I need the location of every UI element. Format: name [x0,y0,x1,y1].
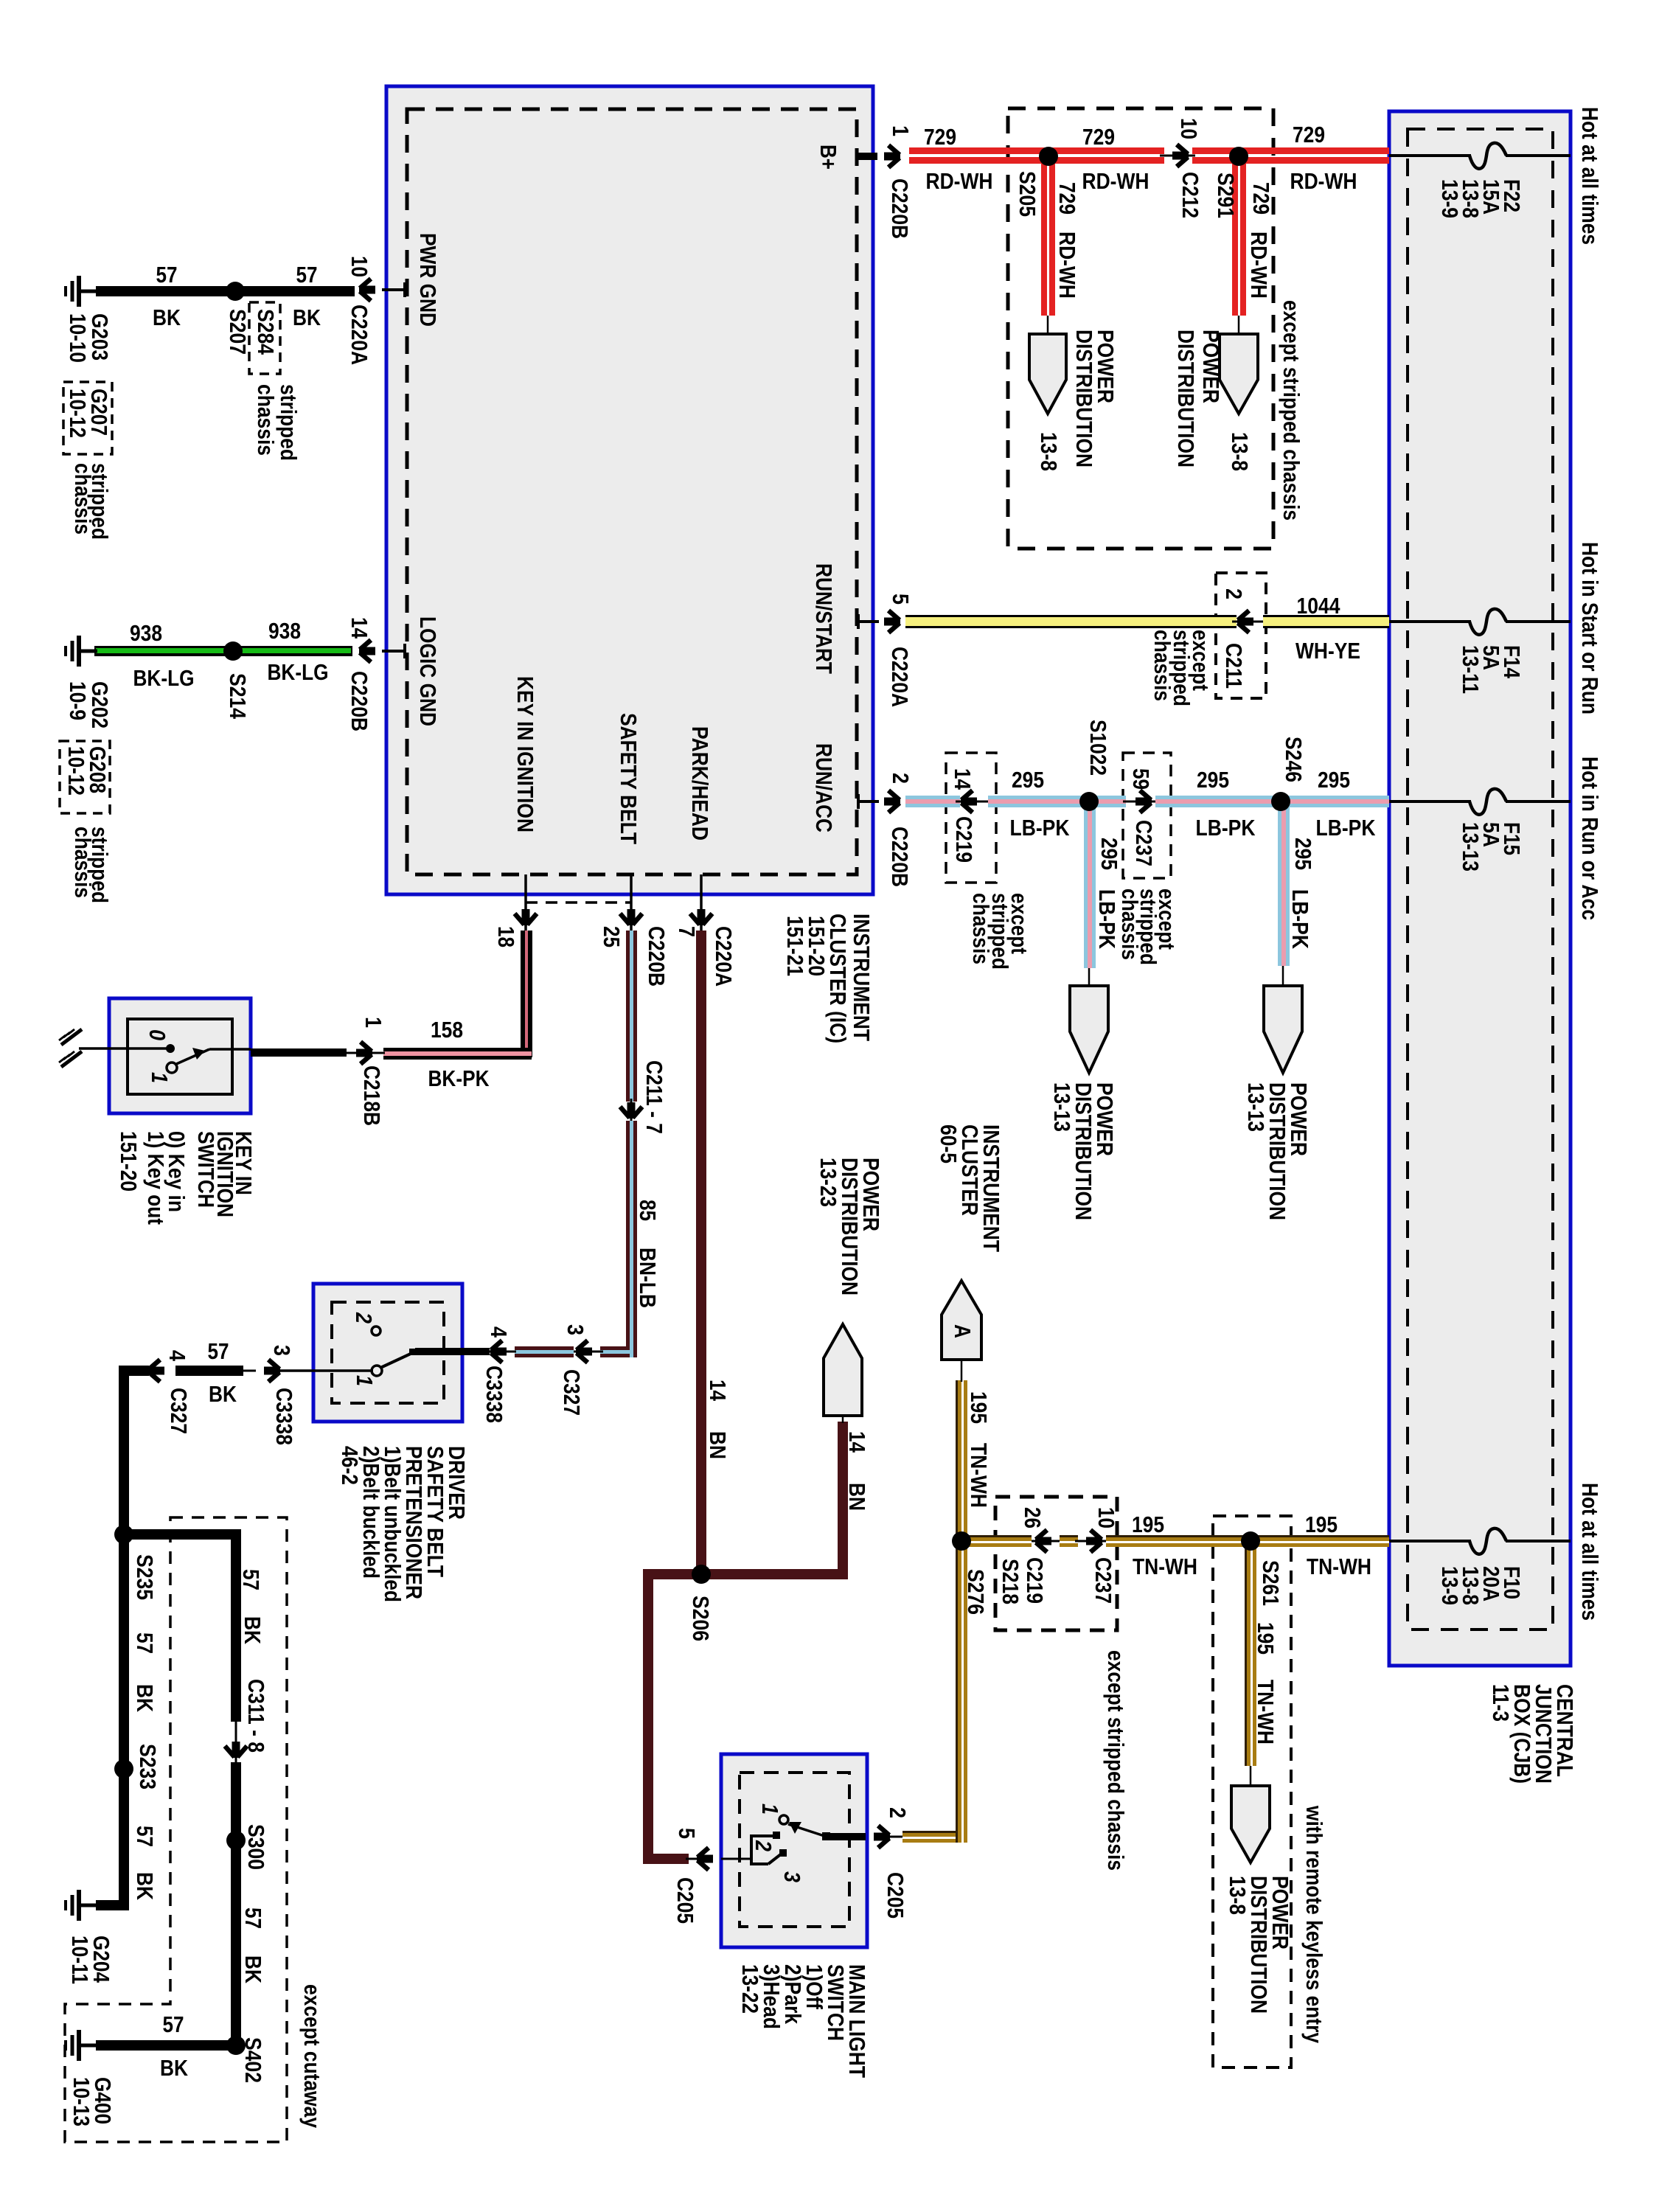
main light switch pin 5 inner line [721,1858,753,1860]
ground G203 [66,276,97,307]
C311-8 link line [235,1722,237,1764]
svg-text:0: 0 [145,1029,170,1040]
wire 195 TN-WH S261 pigtail [1245,1541,1256,1787]
svg-text:14: 14 [950,768,975,790]
svg-text:13-8: 13-8 [1225,1876,1251,1915]
connector arrow C211 pin 7 [620,1102,642,1119]
wire 1044 WH-YE C211 to CJB [1263,615,1389,628]
label KEY IN IGNITION SWITCH [116,1131,257,1225]
connector arrow C327 pin 3 [576,1340,592,1363]
svg-text:chassis: chassis [1117,888,1143,960]
C3338 pin 4 link line [487,1351,516,1353]
wire thin pretensioner pin 3 entry [279,1369,373,1372]
svg-text:57: 57 [163,2011,184,2037]
svg-text:BK: BK [240,1616,265,1645]
svg-text:C218B: C218B [359,1065,385,1126]
svg-text:60-5: 60-5 [936,1124,961,1164]
svg-text:PARK/HEAD: PARK/HEAD [687,726,713,841]
svg-text:S205: S205 [1015,171,1040,217]
svg-text:46-2: 46-2 [337,1446,363,1485]
ground G204 [66,1890,97,1921]
svg-text:POWER: POWER [1198,330,1224,403]
instrument cluster A arrow [942,1281,981,1360]
svg-text:BK: BK [209,1381,237,1407]
svg-text:C220A: C220A [347,305,372,365]
svg-text:151-20: 151-20 [116,1131,142,1192]
PWR GND pin stub [382,282,405,297]
wire 938 BK-LG ground to S214 to C220B pin 14 [94,646,352,656]
svg-text:Hot at all times: Hot at all times [1577,1483,1603,1621]
connector arrow C219 pin 14 [961,790,977,813]
svg-text:chassis: chassis [1150,630,1175,701]
svg-text:chassis: chassis [70,463,96,535]
connector arrow C205 pin 2 [874,1826,890,1848]
label stripped chassis [70,463,113,540]
svg-text:TN-WH: TN-WH [1307,1554,1371,1579]
splice S261 [1241,1531,1260,1551]
label 295 vertical [1094,838,1122,950]
wire 195 TN-WH vertical S276 to switch [956,1541,967,1843]
svg-text:S261: S261 [1258,1560,1284,1606]
pin 25 stub line [630,874,633,931]
svg-text:5: 5 [888,594,914,605]
svg-text:BN-LB: BN-LB [635,1248,661,1308]
label pin 10 C237 [1091,1507,1119,1604]
svg-text:13-13: 13-13 [1243,1082,1269,1132]
svg-text:KEY IN IGNITION: KEY IN IGNITION [512,676,538,832]
splice S291 [1229,147,1248,166]
label CENTRAL JUNCTION BOX (CJB) 11-3 [1488,1684,1578,1784]
connector arrow C220A pin 10 [359,279,375,301]
wire 85 BN-LB corner horizontal [600,1346,630,1357]
svg-text:BK: BK [240,1955,266,1984]
label pin 3 C327 [559,1324,588,1416]
wire 729 RD-WH B+ to S205 to C212 [909,147,1164,164]
svg-text:BK-LG: BK-LG [268,659,329,685]
svg-text:2: 2 [888,773,914,784]
svg-text:C211: C211 [1221,643,1247,689]
svg-text:729: 729 [1054,182,1080,215]
LOGIC GND pin stub [382,644,405,658]
svg-text:57: 57 [132,1632,158,1654]
svg-text:14: 14 [844,1431,870,1453]
label F10 20A 13-8 13-9 [1437,1566,1525,1605]
connector arrow C3338 pin 4 [490,1340,507,1363]
pretensioner inner dashed border [332,1302,444,1403]
C3338 pin 3 link line [242,1370,256,1372]
svg-text:S402: S402 [240,2037,266,2083]
svg-text:14: 14 [347,617,372,639]
wire 57 BK S235 branch horizontal [119,1529,241,1540]
power distribution arrow at S261 [1231,1786,1270,1863]
svg-text:C237: C237 [1131,820,1157,866]
dashed box around G207 [63,382,112,454]
svg-text:LB-PK: LB-PK [1094,889,1120,950]
splice S235 [114,1525,133,1544]
label stripped chassis [253,384,302,461]
label POWER DISTRIBUTION 13-13 [1049,1082,1118,1220]
svg-text:13-8: 13-8 [1036,432,1062,471]
wire BK main light switch pin 2 [827,1833,866,1840]
svg-text:RUN/ACC: RUN/ACC [811,743,837,832]
svg-text:C237: C237 [1091,1557,1116,1604]
dashed box around C219/C237 connectors on TN-WH wire [995,1497,1117,1630]
connector arrow C220B pin 1 [884,145,900,167]
svg-text:14: 14 [705,1380,731,1402]
C327 pin 3 link line [571,1351,603,1353]
svg-text:S1022: S1022 [1085,720,1111,776]
svg-text:BK-PK: BK-PK [428,1065,490,1091]
wire BK corner to G204 [96,1900,129,1910]
label POWER DISTRIBUTION 13-23 [815,1158,884,1295]
main light switch contact 1 [779,1815,788,1824]
central junction box (CJB) [1389,111,1571,1666]
instrument cluster box U1 (IC) [386,86,873,894]
svg-text:729: 729 [1082,124,1115,150]
C212 link line [1160,155,1195,157]
svg-text:BN: BN [844,1483,870,1511]
svg-text:729: 729 [1248,182,1274,215]
wire 14 BN S206 right branch [701,1402,848,1579]
label F22 15A 13-8 13-9 [1437,179,1525,218]
label G208 10-12 [63,746,111,796]
label 57 BK vertical [240,1907,266,1984]
connector arrow C3338 pin 3 [264,1360,280,1382]
svg-text:938: 938 [268,618,301,644]
chassis ground at key in ignition switch [59,1029,82,1067]
CJB F10 row wire [1389,1540,1571,1543]
svg-text:except stripped chassis: except stripped chassis [1103,1650,1129,1871]
svg-text:13-8: 13-8 [1227,432,1253,471]
wire 729 RD-WH S291 pigtail [1232,158,1246,334]
svg-text:C212: C212 [1178,172,1203,218]
svg-text:4: 4 [164,1350,190,1362]
wire 14 BN pin 7 vertical [696,931,706,1574]
svg-text:RUN/START: RUN/START [811,563,837,674]
svg-text:with remote keyless entry: with remote keyless entry [1301,1805,1327,2043]
svg-text:LB-PK: LB-PK [1316,815,1377,841]
ground G400 [66,2030,97,2061]
svg-text:S214: S214 [225,673,251,720]
svg-text:13-23: 13-23 [815,1158,841,1207]
svg-text:BK: BK [132,1872,158,1901]
svg-text:BK: BK [153,305,181,330]
wire 729 RD-WH C212 to S291 to CJB [1192,147,1389,164]
label POWER DISTRIBUTION 13-8 [1173,330,1253,471]
power distribution arrow at S1022 [1070,986,1108,1073]
splice S246 [1271,792,1290,811]
svg-text:295: 295 [1096,838,1122,870]
svg-text:13-9: 13-9 [1437,1566,1463,1605]
fuse F15 5A [1470,789,1506,815]
wire 295 LB-PK S1022 pigtail [1084,801,1096,986]
IC inner dashed border [407,109,857,874]
svg-text:S233: S233 [135,1744,161,1790]
label pin 4 C327 [164,1350,192,1434]
wire 14 BN S206 left branch [643,1569,701,1864]
label 85 BN-LB [635,1200,661,1308]
svg-text:3: 3 [269,1345,295,1356]
svg-text:158: 158 [431,1017,463,1043]
svg-text:2: 2 [751,1840,776,1851]
label F15 5A 13-13 [1458,822,1525,872]
wire 195 TN-WH between C219 and C237 [1060,1535,1078,1547]
label INSTRUMENT CLUSTER 60-5 [936,1124,1004,1252]
connector arrow C211 pin 2 [1237,611,1253,633]
power distribution arrow at S291 [1220,334,1258,414]
svg-text:RD-WH: RD-WH [1082,168,1150,194]
svg-text:C220B: C220B [887,178,913,239]
RUN/START pin stub [857,614,879,629]
svg-text:295: 295 [1197,767,1229,793]
wire 1044 WH-YE to C211 [905,615,1237,628]
svg-text:3: 3 [563,1324,588,1335]
svg-text:1: 1 [757,1804,783,1815]
C211 link line [1232,621,1266,623]
wire 57 BK branch vertical upper [231,1529,241,1722]
svg-text:57: 57 [240,1907,266,1929]
svg-text:4: 4 [486,1326,512,1338]
label 14 BN vertical right [844,1431,870,1511]
svg-text:25: 25 [599,926,625,947]
svg-text:295: 295 [1290,838,1316,870]
key in ignition switch inner rect [128,1019,232,1094]
main light switch inner dashed border [740,1773,849,1927]
wire 85 BN-LB C211-7 to corner [626,1121,637,1357]
svg-text:295: 295 [1012,767,1044,793]
svg-text:C3338: C3338 [271,1388,297,1445]
svg-text:151-21: 151-21 [782,916,808,976]
wire BK vertical S235 S233 to G204 corner [119,1366,129,1910]
connector arrow C237 pin 59 [1135,790,1152,813]
svg-text:C327: C327 [166,1388,192,1434]
svg-text:RD-WH: RD-WH [1054,232,1080,299]
key in ignition switch box SW1 [109,998,251,1113]
label pin 5 C205 [672,1828,700,1924]
label pin 10 C212 [1176,118,1203,218]
svg-text:10: 10 [1093,1507,1119,1528]
label 195 TN-WH vertical [1253,1622,1279,1745]
C218B link line [344,1052,385,1054]
connector arrow C205 pin 5 [697,1848,713,1870]
dashed region except cutaway [65,1517,287,2142]
wire 85 BN-LB pin 25 to C211-7 [626,931,637,1102]
connector arrow C220A pin 5 [884,611,900,633]
wire 195 TN-WH vertical A to S276 [956,1360,967,1541]
svg-text:10-12: 10-12 [63,746,89,796]
key switch contact 0 [166,1044,175,1053]
label except stripped chassis [968,893,1032,970]
wire 195 TN-WH S276 to C219 [961,1535,1032,1547]
fuse F10 20A [1470,1528,1506,1554]
svg-text:RD-WH: RD-WH [926,168,993,194]
svg-text:DISTRIBUTION: DISTRIBUTION [1173,330,1199,467]
svg-text:729: 729 [1293,122,1325,147]
svg-text:10: 10 [1176,118,1202,139]
label G400 10-13 [69,2077,116,2126]
power distribution arrow at S246 [1264,986,1302,1073]
label G204 10-11 [67,1935,114,1984]
svg-text:1) Key out: 1) Key out [143,1131,169,1225]
main light switch box SW2 [721,1754,867,1947]
svg-text:INSTRUMENT: INSTRUMENT [849,914,874,1041]
pretensioner contact 1 [372,1366,382,1376]
wire 57 BK between C327 and C3338 [175,1366,243,1376]
svg-text:57: 57 [132,1826,158,1847]
svg-text:A: A [950,1324,975,1338]
svg-text:BN: BN [705,1431,731,1459]
svg-text:chassis: chassis [253,384,279,456]
svg-text:1: 1 [888,125,914,136]
connector arrow C327 pin 4 [148,1360,164,1382]
svg-text:195: 195 [1132,1512,1164,1537]
label 14 BN vertical [705,1380,731,1459]
splice S207 [226,282,245,301]
label pin 2 C205 [883,1807,911,1919]
power distribution arrow at S205 [1029,334,1066,414]
svg-text:10-9: 10-9 [65,681,91,720]
svg-text:26: 26 [1020,1507,1046,1528]
svg-text:2: 2 [351,1312,377,1324]
splice S402 [226,2036,246,2055]
label pin 1 C218B [359,1017,386,1126]
wire BN-LB between C3338 and C327 [515,1346,574,1357]
label G203 10-10 [65,313,113,363]
label pin 4 C3338 [481,1326,512,1423]
svg-text:SWITCH: SWITCH [193,1131,219,1208]
svg-text:TN-WH: TN-WH [1253,1680,1279,1745]
label 295 LB-PK vertical [1287,838,1316,950]
svg-text:RD-WH: RD-WH [1246,232,1272,299]
label pin 59 C237 [1128,768,1157,866]
wire 57 BK ground to S207 to C220A pin 10 [96,286,355,296]
svg-text:C220B: C220B [887,827,913,887]
svg-text:C220B: C220B [644,926,669,987]
connector arrow IC pin 7 [690,909,712,925]
connector arrow C219 pin 26 [1035,1530,1051,1552]
svg-text:10-13: 10-13 [69,2077,94,2126]
svg-text:195: 195 [966,1391,992,1424]
svg-text:13-11: 13-11 [1458,645,1484,694]
svg-text:S235: S235 [132,1554,158,1600]
svg-text:13-9: 13-9 [1437,179,1463,218]
wire 729 RD-WH S205 pigtail [1041,158,1055,334]
svg-text:C3338: C3338 [481,1366,507,1423]
dashed box around C237 pin 59 connector [1123,753,1171,878]
pin 7 stub line [700,874,703,931]
label pin 2 C211 [1221,588,1247,689]
splice S205 [1039,147,1058,166]
svg-text:LB-PK: LB-PK [1287,889,1313,950]
svg-text:LOGIC GND: LOGIC GND [415,616,441,726]
svg-text:13-13: 13-13 [1049,1082,1075,1132]
connector arrow C220B pin 2 [884,790,900,813]
C219 pin 14 link line [956,801,990,803]
connector arrow IC pin 18 [515,909,537,925]
pin 18 stub line [524,874,527,931]
svg-text:295: 295 [1318,767,1350,793]
driver safety belt pretensioner box [313,1284,462,1422]
svg-text:C219: C219 [951,816,977,863]
C219 pin 26 link line [1032,1540,1062,1543]
C211-7 link line [630,1099,633,1122]
svg-text:B+: B+ [815,145,841,170]
svg-text:chassis: chassis [70,827,96,898]
svg-text:WH-YE: WH-YE [1295,638,1360,664]
label 57 BK vertical [132,1826,158,1901]
splice S233 [114,1759,133,1778]
svg-text:59: 59 [1128,768,1154,790]
svg-text:C205: C205 [883,1872,908,1919]
svg-text:85: 85 [635,1200,661,1221]
connector arrow C212 pin 10 [1172,145,1189,167]
dashed box around C211 connector [1216,573,1266,698]
svg-text:S300: S300 [243,1824,269,1870]
splice S276 [952,1531,971,1551]
label pin 26 C219 S218 [998,1507,1048,1604]
svg-text:11-3: 11-3 [1488,1684,1514,1722]
svg-text:C205: C205 [672,1877,698,1924]
svg-text:DISTRIBUTION: DISTRIBUTION [1071,330,1097,467]
CJB F22 row wire [1389,154,1571,157]
svg-text:BK: BK [293,305,321,330]
svg-text:C211 - 7: C211 - 7 [641,1060,667,1134]
wire 57 BK S402 to G400 [96,2040,236,2051]
svg-text:C327: C327 [559,1369,585,1416]
fuse F14 5A [1470,609,1506,635]
label pin 3 C3338 [269,1345,297,1445]
dashed box around splice S261 [1213,1516,1291,2067]
RUN/ACC pin stub [857,794,879,809]
C237 pin 59 link line [1123,801,1158,803]
svg-text:LB-PK: LB-PK [1196,815,1256,841]
splice S1022 [1079,792,1099,811]
svg-text:195: 195 [1305,1512,1338,1537]
label POWER DISTRIBUTION 13-8 [1225,1876,1293,2014]
label except stripped chassis [1117,888,1180,965]
label POWER DISTRIBUTION 13-8 [1036,330,1119,471]
C205 pin 2 link line [889,1836,904,1838]
label F14 5A 13-11 [1458,645,1525,694]
CJB F14 row wire [1389,620,1571,623]
svg-text:13-22: 13-22 [737,1964,763,2014]
svg-text:10-12: 10-12 [65,389,91,438]
label 195 TN-WH vertical [966,1391,992,1508]
svg-text:57: 57 [156,262,178,288]
svg-text:1: 1 [352,1375,378,1386]
svg-text:3: 3 [779,1871,805,1882]
svg-text:1: 1 [361,1017,386,1028]
wire 295 LB-PK S246 pigtail [1278,801,1290,986]
svg-text:1: 1 [147,1072,173,1083]
svg-text:938: 938 [130,620,162,646]
pretensioner lever [380,1349,416,1368]
wire BK ground net C327 to corner [119,1366,149,1376]
svg-text:2: 2 [885,1807,911,1818]
B+ pin stub wire [857,153,877,160]
splice S214 [223,641,243,661]
label 57 BK branch vertical [238,1569,265,1645]
connector arrow C237 pin 10 [1086,1530,1102,1552]
svg-text:C220A: C220A [711,926,737,987]
main light switch lever [788,1822,830,1840]
wire 195 TN-WH C237 to S261 to CJB [1106,1535,1389,1547]
svg-text:1044: 1044 [1297,593,1341,619]
svg-text:10-10: 10-10 [65,313,91,363]
svg-text:S206: S206 [688,1596,714,1641]
svg-text:Hot in Run or Acc: Hot in Run or Acc [1577,757,1603,920]
svg-text:195: 195 [1253,1622,1279,1655]
